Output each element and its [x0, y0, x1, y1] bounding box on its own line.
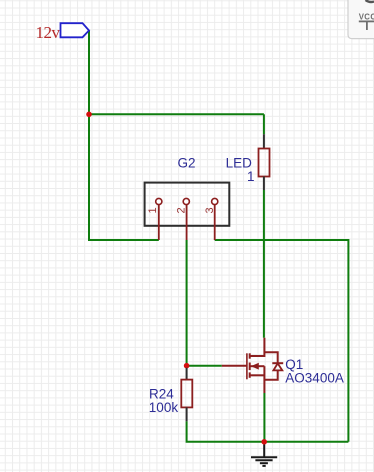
Q1 channel segment top: [249, 353, 251, 358]
wire R24 bottom to ground rail: [187, 421, 349, 442]
ground bar 2: [255, 459, 272, 461]
wire LED top segment: [263, 114, 265, 134]
wire G2 pin2 down to gate junction: [186, 240, 188, 366]
svg-text:100k: 100k: [149, 400, 179, 415]
toolbar VCC icon stem: [366, 21, 368, 30]
toolbar panel top right: [348, 0, 374, 39]
transistor Q1 drain lead: [250, 338, 265, 356]
svg-text:12v: 12v: [36, 23, 61, 42]
Q1 body diode branch bottom: [264, 370, 277, 379]
resistor R24 body: [181, 380, 192, 408]
wire net 12V: flag down through junction to G2 pin1: [89, 31, 159, 241]
G2 pin 2 lead: [186, 205, 188, 241]
LED1 body: [259, 149, 270, 177]
toolbar partial icon top: [366, 0, 374, 2]
Q1 body arrow: [251, 363, 259, 370]
ground bar 4: [262, 465, 265, 467]
G2 pin 1 circle: [156, 198, 162, 204]
wire net 12V horizontal to LED: [89, 113, 264, 115]
resistor R24 bottom lead: [186, 407, 188, 421]
wire LED bottom to Q1 drain: [263, 190, 265, 338]
svg-text:AO3400A: AO3400A: [285, 370, 344, 385]
G2 pin 3 circle: [212, 198, 218, 204]
LED1 bottom lead: [263, 177, 265, 191]
Q1 source horizontal: [250, 374, 265, 376]
Q1 body diode cathode bar: [272, 362, 283, 364]
Q1 gate lead: [222, 365, 247, 367]
Q1 channel segment bottom: [249, 372, 251, 377]
svg-text:2: 2: [176, 207, 188, 213]
G2 pin 3 lead: [214, 205, 216, 241]
ground stem: [263, 445, 265, 458]
svg-text:VCC: VCC: [359, 13, 374, 22]
junction dot at gate/R24: [184, 363, 190, 369]
wire G2 pin3 right and down: [215, 240, 349, 442]
power flag symbol: [61, 23, 90, 37]
Q1 channel segment middle: [249, 363, 251, 371]
Q1 body diode triangle: [273, 363, 282, 370]
svg-text:3: 3: [204, 207, 216, 213]
G2 pin 2 circle: [183, 198, 189, 204]
ground bar 1: [251, 456, 277, 458]
connector G2 body: [145, 183, 230, 226]
resistor R24 top lead: [186, 368, 188, 380]
svg-text:G2: G2: [178, 155, 196, 170]
svg-text:1: 1: [247, 169, 255, 184]
Q1 body diode branch top: [264, 352, 277, 363]
Q1 gate bar: [246, 353, 248, 379]
Q1 source vertical lead: [263, 366, 265, 393]
Q1 body horizontal: [250, 365, 265, 367]
G2 pin 1 lead: [158, 205, 160, 241]
junction dot at 12V tap: [86, 112, 92, 118]
ground bar 3: [260, 462, 268, 464]
wire Q1 source down to ground rail: [263, 393, 265, 442]
wire gate junction to Q1 gate: [187, 365, 222, 367]
junction dot at ground: [261, 439, 267, 445]
toolbar VCC icon bar: [359, 20, 374, 22]
svg-text:1: 1: [147, 207, 159, 213]
LED1 top lead: [263, 134, 265, 148]
